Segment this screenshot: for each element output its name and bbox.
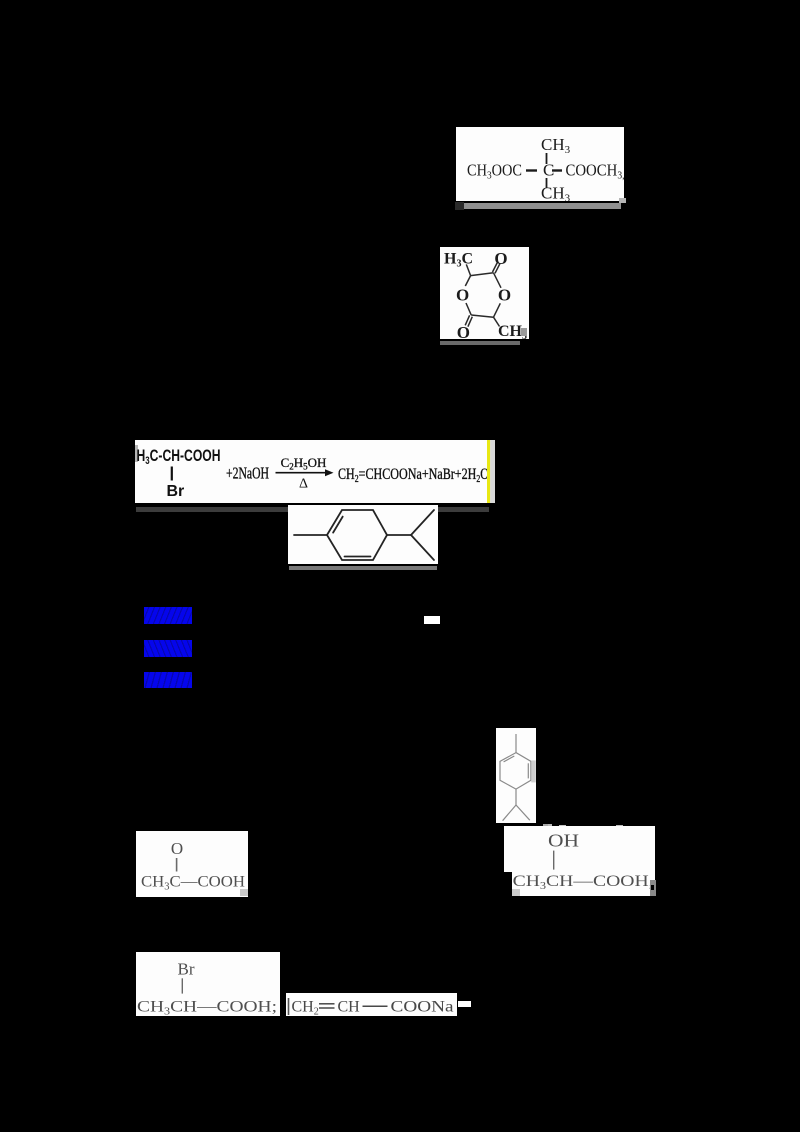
svg-text:Δ: Δ bbox=[299, 477, 308, 492]
strip I: sodium acrylate CH2=CH-COONa bbox=[286, 993, 457, 1016]
svg-text:CH3C—COOH: CH3C—COOH bbox=[141, 874, 245, 893]
single bond dash bbox=[363, 1005, 388, 1007]
isopropyl lower branch bbox=[411, 535, 434, 560]
box D: 1-methyl-4-isopropyl-cyclohexadiene skeleton bbox=[288, 505, 438, 564]
C=O bottom double bond bbox=[465, 315, 469, 325]
isopropyl upper branch bbox=[411, 510, 434, 535]
methyl bond top bbox=[515, 734, 517, 753]
inner double bond upper-left bbox=[504, 756, 515, 762]
isopropyl left leg bbox=[503, 805, 516, 821]
bond to isopropyl CH bbox=[387, 534, 411, 536]
svg-text:O: O bbox=[457, 323, 470, 339]
left edge tick bbox=[288, 998, 290, 1015]
reaction arrow bbox=[276, 472, 332, 474]
inner double bond upper-left bbox=[333, 517, 343, 533]
light square right end of bar A bbox=[619, 198, 626, 203]
svg-text:COONa: COONa bbox=[391, 999, 454, 1016]
svg-text:O: O bbox=[494, 249, 507, 268]
ring edge TL to O left bbox=[465, 276, 470, 286]
gray block at box G bottom-right corner bbox=[650, 880, 656, 896]
svg-text:Br: Br bbox=[167, 483, 185, 500]
benzene-like hexagon bbox=[327, 510, 387, 560]
bond dash left bbox=[526, 169, 537, 171]
svg-text:OH: OH bbox=[548, 831, 579, 851]
bond BR to CH3 bbox=[494, 317, 500, 326]
box G: lactic acid CH3-CHOH-COOH bbox=[504, 826, 655, 896]
white dash mark right of label 1 bbox=[424, 616, 440, 624]
dark gray underline bar below box C bbox=[136, 507, 489, 512]
svg-text:COOCH3,: COOCH3, bbox=[566, 161, 625, 182]
ring edge BR to O right bbox=[494, 303, 501, 317]
bond ring to isopropyl CH bbox=[515, 789, 517, 805]
bond C to bottom CH3 bbox=[546, 178, 548, 188]
bond CH to Br bbox=[171, 467, 173, 481]
svg-text:CH3CH—COOH,: CH3CH—COOH, bbox=[513, 873, 654, 892]
inner double bond bottom bbox=[345, 556, 371, 558]
svg-text:CH3CH—COOH;: CH3CH—COOH; bbox=[137, 999, 277, 1017]
box F: pyruvic acid CH3-CO-COOH bbox=[136, 831, 248, 897]
black notch at box G bottom-left bbox=[504, 872, 512, 896]
svg-text:H3C: H3C bbox=[444, 251, 473, 270]
small gray artifacts above box G bbox=[545, 824, 552, 830]
dark block left end of bar A bbox=[455, 202, 464, 210]
black mark inside gray block bbox=[651, 885, 654, 890]
yellow highlight bar at right edge bbox=[487, 440, 490, 503]
box H: 2-bromopropanoic acid bbox=[136, 952, 280, 1016]
gray square in box G bottom-left notch bbox=[512, 889, 520, 896]
svg-text:CH2=CHCOONa+NaBr+2H2O: CH2=CHCOONa+NaBr+2H2O bbox=[338, 466, 489, 485]
blue answer label 1 bbox=[144, 607, 192, 624]
isopropyl right leg bbox=[516, 805, 530, 820]
bond C to top CH3 bbox=[546, 153, 548, 164]
double bond line bbox=[176, 858, 178, 872]
hexagon ring bbox=[500, 753, 531, 790]
svg-text:CH3: CH3 bbox=[541, 135, 571, 156]
svg-text:O: O bbox=[171, 839, 183, 858]
box C: reaction equation bbox=[135, 440, 495, 503]
svg-text:O: O bbox=[498, 286, 511, 305]
box A: dimethyl 2,2-dimethylmalonate structure bbox=[456, 127, 624, 201]
box E: alpha-phellandrene type structure (vertical) bbox=[496, 728, 536, 823]
blue answer label 3 bbox=[144, 672, 192, 688]
svg-text:CH2: CH2 bbox=[292, 999, 319, 1017]
methyl bond left bbox=[294, 534, 327, 536]
white dash after strip I bbox=[458, 1001, 471, 1007]
svg-text:CH: CH bbox=[338, 999, 361, 1016]
svg-text:CH3: CH3 bbox=[541, 184, 571, 202]
gray underline bar below box B bbox=[440, 341, 520, 345]
svg-text:O: O bbox=[456, 286, 469, 305]
svg-text:H3C-CH-COOH: H3C-CH-COOH bbox=[137, 446, 221, 467]
ring bottom edge bbox=[471, 315, 493, 317]
bond line bbox=[553, 851, 555, 870]
gray underline bar below box D bbox=[289, 566, 437, 570]
svg-text:Br: Br bbox=[178, 960, 195, 979]
blue answer label 2 bbox=[144, 640, 192, 657]
gray handle square at box B bottom right bbox=[521, 328, 527, 336]
C=O top double bond bbox=[493, 262, 498, 272]
ring edge O left to BL bbox=[466, 303, 471, 315]
gray handle square at box F bottom right bbox=[240, 889, 248, 896]
bond CH3 to ring TL bbox=[466, 264, 470, 275]
svg-text:C2H5OH: C2H5OH bbox=[281, 455, 327, 472]
svg-text:+2NaOH: +2NaOH bbox=[226, 464, 269, 483]
inner double bond right bbox=[527, 763, 529, 778]
ring top edge bbox=[471, 273, 494, 276]
ring edge O right to TR bbox=[494, 273, 502, 288]
bond dash right bbox=[552, 169, 562, 171]
box B: lactide ring structure bbox=[440, 247, 529, 339]
gray underline bar below box A bbox=[463, 203, 621, 209]
svg-text:CH3OOC: CH3OOC bbox=[467, 161, 522, 182]
bond line bbox=[181, 978, 183, 993]
double bond equals bbox=[319, 1003, 335, 1005]
